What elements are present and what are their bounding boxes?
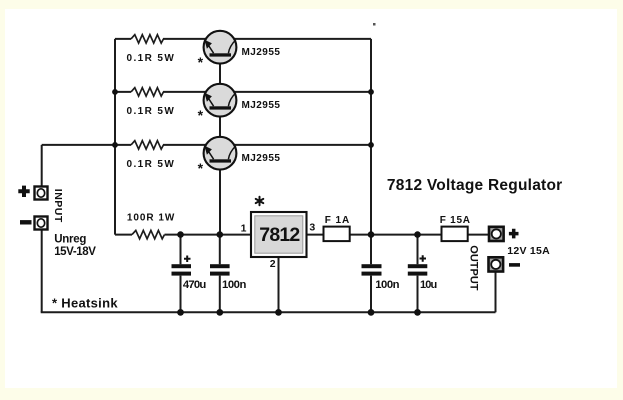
svg-text:0.1R 5W: 0.1R 5W <box>127 159 176 170</box>
svg-text:MJ2955: MJ2955 <box>242 100 281 111</box>
svg-text:12V 15A: 12V 15A <box>507 245 550 257</box>
svg-text:15V-18V: 15V-18V <box>54 246 96 258</box>
svg-text:MJ2955: MJ2955 <box>242 153 281 164</box>
svg-text:1: 1 <box>241 222 247 234</box>
svg-text:*: * <box>198 160 204 176</box>
svg-text:INPUT: INPUT <box>52 189 64 223</box>
svg-text:*: * <box>198 54 204 70</box>
svg-text:100n: 100n <box>222 279 246 291</box>
svg-text:0.1R 5W: 0.1R 5W <box>127 53 176 64</box>
svg-text:Unreg: Unreg <box>54 234 86 246</box>
svg-text:3: 3 <box>309 222 315 234</box>
svg-text:F 15A: F 15A <box>440 215 471 226</box>
svg-text:*: * <box>198 107 204 123</box>
svg-text:7812 Voltage Regulator: 7812 Voltage Regulator <box>387 177 563 194</box>
svg-text:F 1A: F 1A <box>325 215 350 226</box>
svg-text:10u: 10u <box>420 279 437 291</box>
svg-text:100R 1W: 100R 1W <box>127 212 175 223</box>
svg-text:7812: 7812 <box>259 224 300 246</box>
svg-text:* Heatsink: * Heatsink <box>52 295 118 310</box>
svg-text:MJ2955: MJ2955 <box>242 47 281 58</box>
svg-text:OUTPUT: OUTPUT <box>468 245 480 290</box>
svg-text:0.1R 5W: 0.1R 5W <box>127 106 176 117</box>
svg-text:470u: 470u <box>183 279 206 291</box>
svg-text:100n: 100n <box>375 279 399 291</box>
svg-text:2: 2 <box>270 258 276 270</box>
